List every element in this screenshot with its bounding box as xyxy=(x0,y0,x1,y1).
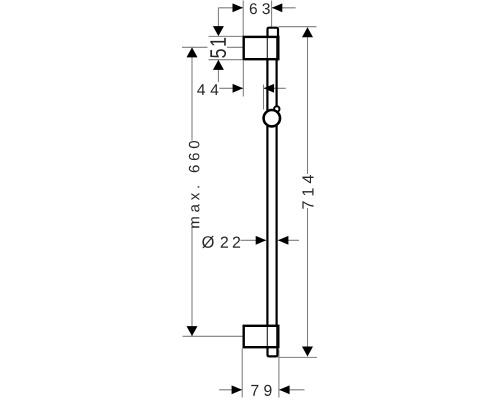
arrowhead 51 bottom xyxy=(213,60,224,70)
dimension 714 line upper segment xyxy=(307,28,309,175)
arrowhead 51 top xyxy=(213,26,224,36)
rail tube main edges xyxy=(267,60,276,326)
arrowhead dia22 right xyxy=(278,236,289,245)
arrowhead dia22 left xyxy=(256,236,267,245)
dimension 79 extension line left xyxy=(241,349,243,398)
dimension 44 leader left xyxy=(219,87,243,89)
rail tube thin edges through bottom holder xyxy=(267,326,276,348)
dimension dia22 leader right xyxy=(278,239,299,241)
arrowhead 79 left xyxy=(232,385,243,394)
bottom wall holder xyxy=(244,326,279,347)
dimension 44 extension line left xyxy=(242,61,244,97)
dimension 79 leader right xyxy=(279,389,304,391)
dimension max660 line lower segment xyxy=(191,227,193,336)
top end cap xyxy=(268,28,279,38)
slider ring xyxy=(264,110,280,126)
dimension 51 extension line top xyxy=(209,35,243,37)
dimension 63 leader right xyxy=(272,7,296,9)
dimension 714 line lower segment xyxy=(307,208,309,356)
dimension 63 extension line right (bar axis) xyxy=(271,1,273,27)
label 63 xyxy=(250,3,270,14)
label 51 (rotated) xyxy=(210,38,226,58)
dimension 44 extension line right (slider edge) xyxy=(263,85,265,110)
rail tube thin edges through top holder xyxy=(267,37,276,60)
dimension max660 extension line bottom xyxy=(183,335,244,337)
dimension 79 extension line right xyxy=(278,350,280,398)
dimension max660 extension line top xyxy=(182,46,243,48)
label 714 (rotated) xyxy=(302,175,313,209)
arrowhead max660 top xyxy=(187,47,198,57)
label 79 xyxy=(251,385,271,396)
dimension 51 extension line bottom xyxy=(209,59,243,61)
arrowhead 63 left xyxy=(233,3,244,12)
dimension dia22 leader left xyxy=(241,239,267,241)
dimension 63 leader left xyxy=(218,7,243,9)
dimension 714 extension line top xyxy=(279,26,317,28)
dimension 79 leader left xyxy=(219,389,242,391)
dimension 51 arrow tail bottom xyxy=(217,60,219,82)
corner connector 63 to 51 xyxy=(217,8,219,27)
arrowhead 79 right xyxy=(279,385,290,394)
arrowhead 714 bottom xyxy=(302,347,313,357)
dimension 714 extension line bottom xyxy=(278,356,318,358)
arrowhead 714 top xyxy=(302,27,313,37)
white mask behind 51 label xyxy=(208,37,228,58)
label 44 xyxy=(197,84,218,95)
bottom end cap xyxy=(268,347,278,357)
dimension 63 extension line left xyxy=(242,1,244,37)
arrowhead 44 left xyxy=(233,84,244,93)
arrowhead max660 bottom xyxy=(187,326,198,336)
arrowhead 44 right xyxy=(264,84,275,93)
label max. 660 (rotated) xyxy=(189,141,200,228)
slider release nub xyxy=(274,106,279,111)
dimension max660 line upper segment xyxy=(191,48,193,141)
top wall holder xyxy=(244,37,279,59)
dimension 44 leader right xyxy=(264,87,286,89)
arrowhead 63 right xyxy=(272,3,283,12)
label dia 22 xyxy=(202,236,240,248)
